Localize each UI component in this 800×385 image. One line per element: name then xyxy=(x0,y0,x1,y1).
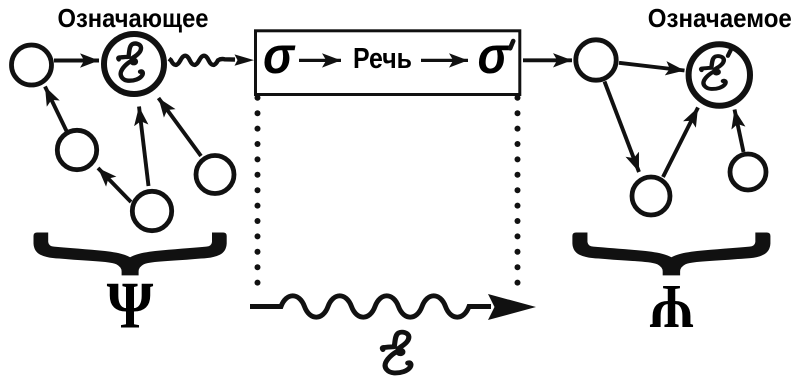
node: right circle 1 xyxy=(576,40,616,80)
node: big circle signifier xyxy=(104,34,164,94)
svg-text:Речь: Речь xyxy=(353,43,412,75)
svg-text:Ψ: Ψ xyxy=(650,272,694,342)
arrow circle D to big circle R xyxy=(663,108,698,178)
node: circle E xyxy=(730,154,766,190)
node: circle C xyxy=(196,156,234,194)
dotted line left xyxy=(255,95,261,286)
arrow circle1 to big circle R xyxy=(619,63,685,71)
glyph script E bottom xyxy=(382,332,411,373)
svg-text:σ: σ xyxy=(478,27,511,85)
arrow circle C to big circle xyxy=(159,98,202,156)
node: big circle signified xyxy=(689,44,750,105)
arrow circle A to left circle xyxy=(45,87,67,133)
glyph script E in left big circle xyxy=(118,44,142,81)
arrow speech to sigma prime xyxy=(421,59,468,62)
bottom wavy arrow xyxy=(250,296,491,317)
glyph script E prime in right big circle xyxy=(701,56,725,89)
arrow circle B to big circle xyxy=(139,107,149,187)
node: circle A xyxy=(57,130,96,169)
svg-text:Означающее: Означающее xyxy=(58,3,209,33)
node: circle B xyxy=(132,191,171,230)
node: circle D xyxy=(632,177,670,215)
box: Речь xyxy=(256,31,520,95)
wavy arrow big circle to box xyxy=(169,56,235,65)
right underbrace xyxy=(572,233,770,276)
label inverted Psi xyxy=(650,272,694,342)
dotted line right xyxy=(515,95,521,286)
arrow sigma to speech xyxy=(299,59,341,62)
arrow circle B to circle A xyxy=(98,168,131,202)
left underbrace xyxy=(34,233,227,276)
arrow circle1 to circle D xyxy=(605,82,640,173)
svg-text:Означаемое: Означаемое xyxy=(648,3,792,33)
svg-text:σ: σ xyxy=(263,27,296,85)
arrow box to right circle 1 xyxy=(523,58,572,62)
arrow circle E to big circle R xyxy=(735,110,744,153)
node: left small circle xyxy=(12,45,52,85)
svg-text:Ψ: Ψ xyxy=(107,269,154,343)
arrow left circle to big circle xyxy=(54,59,99,63)
